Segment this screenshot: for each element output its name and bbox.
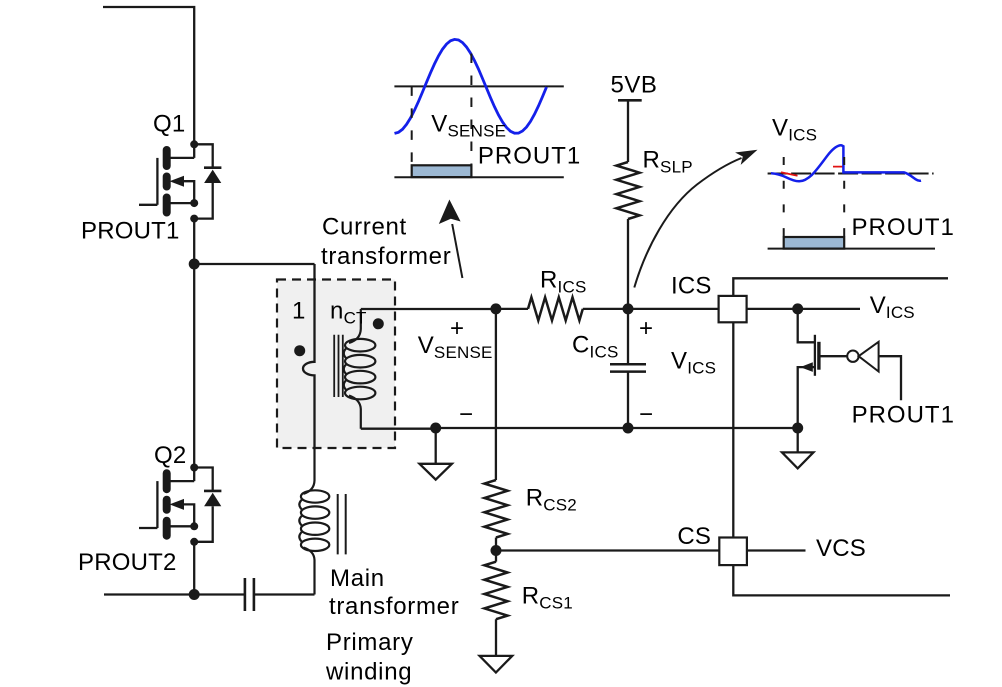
Q1 source lead (170, 202, 194, 204)
svg-text:PROUT1: PROUT1 (478, 143, 581, 170)
Q1 drain lead (170, 144, 194, 158)
resistor R_CS2 (495, 309, 497, 480)
Q1 gate line (156, 158, 158, 205)
wire inverter input from PROUT1 (879, 356, 901, 400)
Q1 channel bars (163, 150, 171, 213)
svg-text:RCS2: RCS2 (526, 485, 577, 515)
node A junction dot (189, 259, 200, 270)
waveform inset VICS: dashed markers (784, 157, 845, 237)
wire right rail top (733, 278, 948, 537)
wire Q2 source down to node B (193, 542, 195, 595)
waveform inset VICS: PROUT1 pulse (784, 237, 845, 249)
svg-text:CS: CS (677, 523, 711, 550)
svg-text:Main: Main (330, 565, 385, 592)
gate lead (821, 355, 848, 357)
waveform inset VICS: baseline (768, 248, 935, 250)
CT secondary winding (344, 309, 376, 429)
wire node A to CT primary (194, 263, 314, 265)
wire CS node to CS pin (496, 549, 719, 551)
node VICS junction dot (792, 303, 803, 314)
Q1 pin dots (190, 140, 198, 148)
waveform inset VSENSE: PROUT1 pulse (412, 165, 472, 177)
Q2 drain lead (170, 468, 194, 482)
resistor R_SLP (616, 162, 639, 219)
Q2 body lead with arrow (182, 504, 194, 526)
svg-text:RSLP: RSLP (643, 147, 693, 177)
svg-text:Q2: Q2 (154, 442, 186, 469)
svg-text:ICS: ICS (671, 273, 712, 300)
svg-text:VSENSE: VSENSE (431, 111, 506, 141)
wire capacitor to primary winding (254, 593, 315, 595)
svg-text:PROUT2: PROUT2 (78, 549, 177, 576)
Q2 channel bars (163, 473, 171, 536)
waveform inset VICS: axis (768, 173, 934, 175)
main transformer primary winding coil (299, 448, 345, 595)
svg-text:transformer: transformer (321, 243, 451, 270)
resistor R_CS1 (495, 551, 497, 562)
svg-text:Q1: Q1 (153, 111, 185, 138)
Q2 source lead (170, 525, 194, 527)
svg-text:Primary: Primary (326, 629, 414, 656)
inverter U1 (847, 351, 858, 362)
wire CS pin to VCS (747, 549, 806, 551)
svg-text:CICS: CICS (572, 332, 619, 362)
resistor R_ICS (496, 308, 528, 310)
current transformer dashed box (277, 280, 395, 449)
capacitor (dc blocking) (245, 578, 254, 611)
Q2 gate line (156, 481, 158, 528)
svg-text:VICS: VICS (870, 292, 915, 322)
svg-text:Current: Current (322, 214, 407, 241)
node CS divider junction dot (491, 545, 502, 556)
5VB supply terminal (618, 99, 642, 102)
node source junction dot (792, 423, 803, 434)
waveform inset VSENSE: baseline (394, 176, 563, 178)
wire minus rail (436, 427, 798, 429)
arrow to VSENSE waveform (452, 224, 462, 278)
svg-text:PROUT1: PROUT1 (81, 218, 180, 245)
waveform inset VICS: blue curve (771, 145, 921, 181)
svg-text:5VB: 5VB (611, 72, 658, 99)
wire Q1 source to node A (193, 219, 195, 264)
Q1 gate lead (139, 204, 157, 206)
node C_ICS bottom junction dot (623, 423, 634, 434)
waveform inset VSENSE: axis (394, 85, 563, 87)
pin box ICS (719, 296, 747, 322)
wire node B to capacitor (194, 593, 245, 595)
node VSENSE+ junction dot (490, 303, 501, 314)
Q2 gate lead (139, 527, 157, 529)
waveform inset VSENSE: dashed markers (412, 54, 472, 167)
Q1 body lead with arrow (182, 181, 194, 203)
wire right rail bottom (733, 565, 950, 595)
wire ICS pin to node VICS (747, 308, 860, 310)
Q2 pin dots (190, 464, 198, 472)
wire bottom-left rail (104, 593, 194, 595)
svg-text:PROUT1: PROUT1 (852, 402, 955, 429)
svg-text:+: + (450, 315, 464, 342)
CT secondary phase dot (373, 318, 384, 329)
svg-text:transformer: transformer (329, 593, 459, 620)
wire node A down to Q2 drain (193, 264, 195, 468)
Q2 body diode (194, 468, 213, 542)
svg-text:−: − (639, 401, 653, 428)
svg-text:winding: winding (325, 659, 412, 686)
wire CT secondary top to node VSENSE+ (361, 308, 496, 310)
node ICS junction dot (623, 303, 634, 314)
svg-text:VCS: VCS (816, 535, 866, 562)
waveform inset VICS: red ideal marks (781, 167, 844, 176)
svg-text:VICS: VICS (671, 348, 716, 378)
wire node ICS to pin box (628, 308, 719, 310)
svg-text:RICS: RICS (540, 267, 587, 297)
curved arrow to VICS waveform (634, 158, 741, 288)
waveform inset VSENSE: sine curve (395, 39, 547, 133)
wire top-left rail (103, 7, 194, 144)
ground (internal MOSFET source) (782, 428, 813, 468)
svg-text:RCS1: RCS1 (522, 583, 573, 613)
transistor Q1 (139, 140, 221, 222)
channel line (814, 335, 816, 376)
svg-text:1: 1 (292, 298, 306, 325)
wire CT secondary bottom to ground node (361, 428, 436, 430)
Q1 body diode (194, 144, 213, 218)
ground (R_CS1) (480, 656, 513, 673)
main transformer core (338, 494, 346, 554)
svg-text:PROUT1: PROUT1 (852, 214, 955, 241)
CT core lines (334, 335, 343, 397)
svg-text:VICS: VICS (772, 115, 817, 145)
gate bar (817, 342, 820, 370)
source lead with arrow (798, 367, 815, 428)
capacitor C_ICS (627, 309, 629, 428)
ground (CT secondary) (420, 428, 452, 480)
transistor Q2 (139, 464, 221, 546)
pin box CS (719, 538, 747, 566)
drain wire from node VICS (798, 309, 815, 342)
svg-text:−: − (459, 401, 473, 428)
CT primary wire with single-turn bump (303, 264, 315, 448)
node B junction dot (189, 589, 200, 600)
transistor internal MOSFET (792, 309, 847, 434)
svg-text:+: + (639, 315, 653, 342)
node minus-rail junction dot (430, 423, 441, 434)
CT primary phase dot (294, 345, 305, 356)
